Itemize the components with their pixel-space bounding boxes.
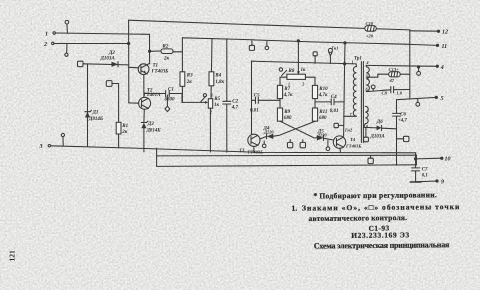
wire: lower secondary to D6	[364, 126, 377, 129]
svg-text:680: 680	[319, 116, 327, 121]
wire: cross coupling A	[280, 121, 317, 138]
transistor T3	[239, 134, 263, 154]
capacitor C10 on top bus	[365, 21, 377, 39]
wire to terminal 10	[415, 157, 451, 163]
svg-text:С7: С7	[422, 167, 428, 172]
transformer core	[361, 62, 363, 143]
svg-text:Д2: Д2	[108, 51, 115, 56]
wire: bottom bus from terminal 3	[51, 146, 416, 153]
test square on cross A	[287, 140, 292, 148]
diode D2	[100, 51, 119, 67]
zener diode D3	[141, 121, 161, 133]
wire: C1 to R5 wiper	[182, 94, 202, 103]
control frame box	[157, 148, 417, 166]
capacitor C13	[389, 67, 410, 83]
svg-text:1: 1	[211, 93, 213, 98]
wire: right long vertical	[409, 30, 411, 99]
wire to terminal 9	[410, 180, 444, 186]
svg-text:4,7: 4,7	[231, 106, 239, 111]
wire: D3 to bottom bus	[143, 128, 145, 152]
wire: T3 base wire	[260, 136, 267, 139]
terminal 3	[39, 144, 51, 150]
wire: R3 column	[181, 38, 183, 103]
svg-text:Тр1: Тр1	[354, 57, 362, 62]
wire W1 from terminal 1	[56, 33, 150, 34]
svg-text:R1: R1	[122, 124, 128, 129]
svg-text:С6: С6	[400, 112, 406, 117]
wire: bus B3	[252, 61, 357, 64]
svg-text:5: 5	[441, 96, 444, 102]
resistor R11	[312, 108, 327, 121]
svg-text:0,1: 0,1	[422, 174, 428, 179]
transistor T2	[139, 89, 161, 110]
wire to terminal 11	[410, 44, 447, 50]
capacitor C5	[250, 93, 280, 113]
diode D6	[370, 120, 397, 139]
svg-text:680: 680	[284, 116, 292, 121]
resistor R9	[277, 108, 292, 121]
svg-text:1.: 1.	[291, 204, 297, 213]
junction dot W11/riser	[344, 42, 346, 44]
svg-text:2к: 2к	[121, 130, 128, 135]
terminal 1	[45, 32, 55, 38]
svg-text:Т1: Т1	[153, 64, 159, 69]
test square on cross B	[300, 140, 305, 148]
svg-text:3: 3	[39, 144, 43, 150]
svg-text:R7: R7	[284, 87, 290, 92]
svg-text:Д814Б: Д814Б	[146, 129, 162, 134]
svg-text:Гн2: Гн2	[344, 128, 353, 133]
svg-text:С5: С5	[254, 93, 260, 98]
test circle below wire 4	[417, 67, 421, 75]
svg-text:Д220: Д220	[263, 130, 274, 135]
svg-text:1,8к: 1,8к	[215, 80, 224, 85]
svg-text:С4: С4	[331, 95, 337, 100]
svg-text:С13+: С13+	[389, 67, 400, 72]
wire: R4 column	[211, 38, 212, 98]
junction dot on B3	[344, 63, 346, 65]
resistor R4	[209, 72, 225, 86]
transformer primary winding	[344, 60, 357, 117]
svg-text:+4,7: +4,7	[398, 119, 407, 124]
test circle above wire 1	[65, 20, 69, 33]
svg-text:1,0: 1,0	[396, 91, 402, 96]
wire: D2 anode wire	[83, 64, 129, 65]
svg-text:R3: R3	[187, 74, 193, 79]
wire: bus W11 to terminal 11	[182, 38, 409, 45]
wire: D1 column	[87, 64, 89, 147]
wire: T4 emitter to bus	[339, 148, 342, 152]
wire: secondary mid tap	[366, 74, 388, 77]
resistor R2	[150, 45, 183, 62]
svg-text:6800: 6800	[165, 97, 176, 102]
svg-text:0,01: 0,01	[330, 109, 339, 114]
svg-text:*: *	[313, 191, 317, 200]
svg-text:Т4: Т4	[350, 137, 356, 142]
svg-text:Д220: Д220	[316, 133, 327, 138]
test square below D6 wire	[364, 128, 369, 142]
capacitor C6	[393, 100, 408, 129]
svg-text:Схема электрическая принципиал: Схема электрическая принципиальная	[314, 240, 450, 250]
svg-text:R11: R11	[319, 110, 327, 115]
svg-text:Гн1: Гн1	[331, 45, 339, 50]
wire: C2 column	[226, 39, 228, 152]
wire: T1 collector riser	[149, 34, 151, 64]
wire: multivibrator left edge	[251, 61, 253, 135]
test square above B3	[313, 52, 317, 64]
wire: right column R10-R11	[314, 99, 316, 108]
svg-text:С8: С8	[382, 91, 388, 96]
svg-text:1: 1	[45, 32, 48, 38]
svg-text:ГТ403Б: ГТ403Б	[247, 149, 263, 154]
wire to terminal 5	[397, 96, 444, 102]
test circle on bottom bus	[61, 133, 64, 146]
potentiometer R5	[201, 93, 221, 115]
svg-text:R8: R8	[289, 69, 295, 74]
wire: T1 base stub	[129, 66, 139, 69]
svg-text:С1: С1	[168, 88, 174, 93]
transistor T1	[138, 63, 169, 74]
wire: R8 right end to R10	[305, 77, 315, 85]
resistor R10	[312, 85, 328, 98]
svg-text:1к: 1к	[214, 103, 220, 108]
svg-text:R4: R4	[215, 73, 221, 78]
svg-text:10: 10	[445, 157, 451, 163]
terminal 2	[43, 42, 54, 48]
wire: R8 left end to R7	[280, 77, 287, 85]
svg-text:4: 4	[366, 108, 369, 113]
test circle on C8 wire	[371, 85, 375, 91]
zener diode D1	[85, 110, 104, 122]
svg-text:2к: 2к	[163, 57, 170, 62]
svg-text:4,7к: 4,7к	[283, 93, 293, 98]
svg-text:Д3: Д3	[147, 122, 154, 127]
capacitor C4	[315, 95, 344, 114]
test circle below D5 wire	[326, 140, 330, 150]
svg-text:47: 47	[389, 78, 395, 83]
svg-text:Д103А: Д103А	[100, 56, 116, 61]
transistor T4	[333, 136, 361, 149]
test circle below T3 base	[262, 141, 266, 148]
svg-text:R5: R5	[214, 97, 220, 102]
resistor R3	[180, 72, 193, 87]
svg-text:8: 8	[366, 87, 368, 92]
capacitor C2	[223, 99, 239, 110]
svg-text:R10: R10	[319, 87, 328, 92]
junction dot R8 riser/W11	[297, 40, 299, 42]
test circle below wire 5	[416, 98, 420, 106]
test square on frame top line	[368, 155, 373, 163]
wire to terminal 4	[366, 65, 444, 71]
wire: T1 emitter to T2	[143, 75, 145, 98]
svg-text:1: 1	[352, 60, 354, 65]
note text block	[291, 190, 460, 251]
resistor R1	[116, 122, 128, 135]
test circle on W11	[265, 41, 269, 49]
svg-text:1к: 1к	[301, 68, 307, 73]
wire W2 from terminal 2	[54, 43, 129, 45]
svg-text:Д814Б: Д814Б	[88, 117, 104, 122]
test square on W11	[249, 41, 254, 50]
test square for R1 branch	[106, 81, 112, 87]
capacitor C7	[412, 167, 428, 178]
transformer secondary upper winding	[366, 60, 370, 91]
svg-text:1: 1	[288, 81, 290, 86]
wire: T2 base stub	[129, 102, 139, 104]
svg-text:И23.233.169 Э3: И23.233.169 Э3	[351, 230, 409, 240]
test square right of column	[397, 136, 409, 141]
svg-text:ГТ403Б: ГТ403Б	[345, 144, 361, 149]
capacitor C1	[144, 88, 182, 103]
wire: T2 emitter down	[143, 109, 145, 122]
svg-text:Д103А: Д103А	[370, 134, 386, 139]
svg-text:Т3: Т3	[239, 148, 245, 153]
transformer secondary lower winding	[364, 106, 369, 129]
wire: left riser to T1/T2 bases	[128, 20, 130, 103]
svg-text:Д1: Д1	[92, 111, 99, 116]
svg-text:С10: С10	[366, 21, 374, 26]
svg-text:автоматического контроля.: автоматического контроля.	[308, 213, 407, 223]
svg-text:2: 2	[301, 81, 304, 86]
svg-text:12: 12	[442, 30, 448, 36]
test diamond below C1	[165, 95, 170, 112]
diode D4	[263, 126, 275, 139]
svg-text:4,7к: 4,7к	[318, 93, 328, 98]
svg-text:11: 11	[442, 44, 448, 50]
svg-text:R2: R2	[163, 45, 169, 50]
svg-text:121: 121	[8, 250, 17, 262]
diode D5	[316, 130, 333, 141]
wire: T3 emitter to bus	[253, 146, 255, 152]
resistor R7	[277, 85, 293, 98]
wire: riser from W11 through B3 to T4 collector	[344, 43, 345, 136]
svg-text:2: 2	[43, 42, 47, 48]
potentiometer R8	[279, 41, 306, 87]
svg-text:Подбирают при регулировании.: Подбирают при регулировании.	[319, 190, 437, 200]
svg-text:Знаками «О», «□» обозначены то: Знаками «О», «□» обозначены точки	[302, 202, 460, 213]
wire: cross coupling B	[273, 121, 315, 136]
wire: right column down to frame	[396, 129, 398, 165]
svg-text:4: 4	[366, 60, 369, 65]
junction dot W2/riser	[128, 42, 130, 44]
svg-text:4: 4	[440, 65, 444, 71]
svg-text:0,01: 0,01	[250, 108, 259, 113]
wire: left column R7-R9	[279, 99, 281, 108]
svg-text:С2: С2	[232, 99, 238, 104]
test square at T4 collector (Gn2)	[334, 123, 353, 132]
capacitor C8	[366, 87, 409, 96]
wire: R1 column	[112, 84, 119, 148]
junction dot on wire 4	[418, 66, 420, 68]
junction dot at T1 collector/R2	[149, 50, 151, 52]
wire: vertical at C7	[415, 153, 417, 182]
svg-text:2к: 2к	[186, 80, 193, 85]
svg-text:+20: +20	[366, 34, 374, 39]
test square on D2 wire	[78, 61, 84, 66]
svg-text:9: 9	[441, 180, 444, 186]
test circle below wire 2	[65, 44, 68, 57]
svg-text:Д6: Д6	[376, 120, 383, 125]
svg-text:R9: R9	[284, 110, 290, 115]
wire: top bus B1	[129, 20, 410, 30]
wire to terminal 12	[410, 30, 448, 36]
wire: R5 to bottom bus	[209, 108, 211, 152]
svg-text:ГТ403Б: ГТ403Б	[151, 70, 170, 75]
jack Gn1	[328, 45, 338, 63]
